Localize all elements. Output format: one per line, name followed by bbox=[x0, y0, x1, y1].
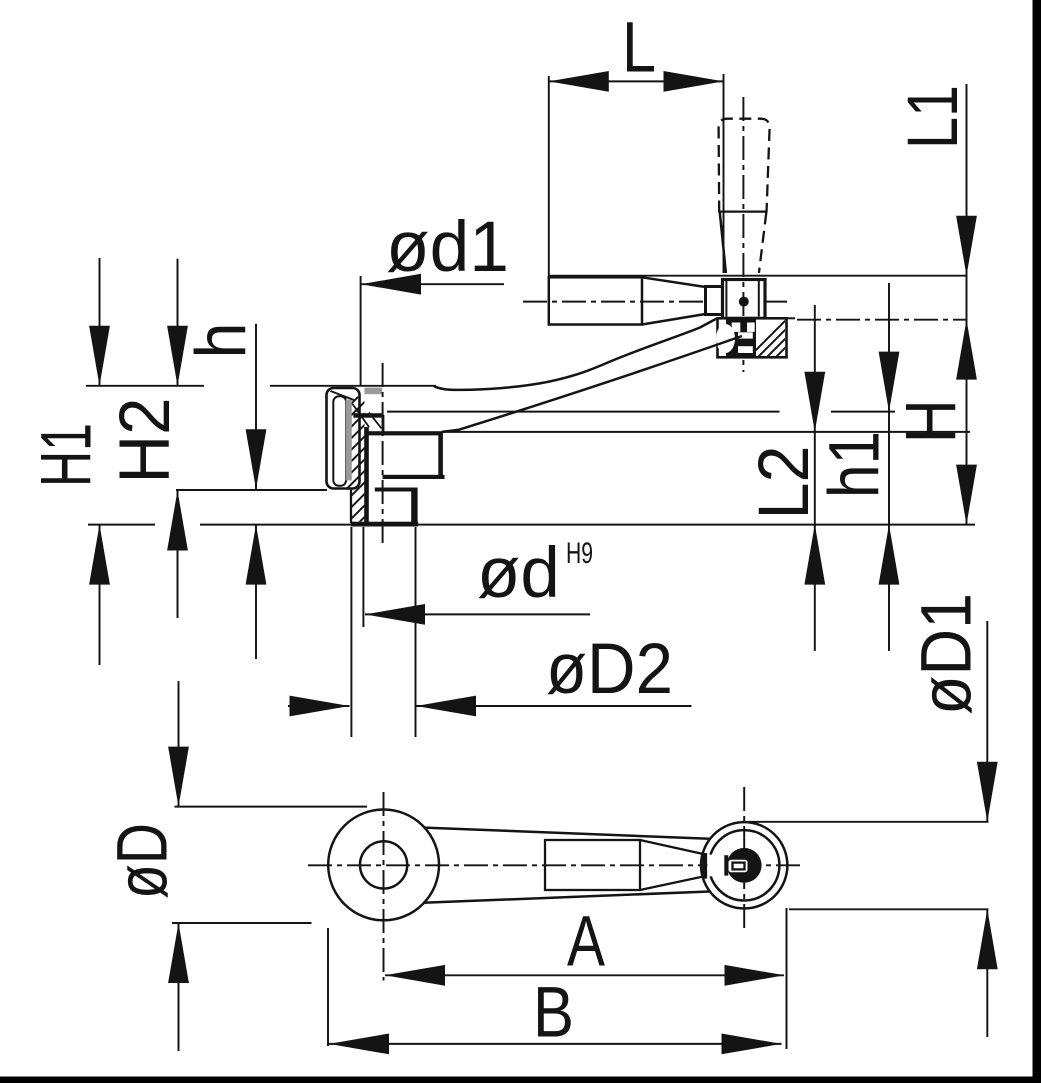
knob vertical centerline bbox=[743, 787, 745, 928]
arm upper sweep line bbox=[434, 319, 717, 390]
knob circles bbox=[701, 822, 787, 908]
svg-text:H: H bbox=[892, 399, 971, 443]
hub step shelf bbox=[383, 475, 445, 479]
hub cap (flange) bbox=[327, 388, 360, 489]
svg-text:H9: H9 bbox=[566, 537, 593, 570]
label H bbox=[892, 399, 971, 443]
grip centerline bbox=[742, 97, 744, 372]
hub chamfer lines bbox=[331, 391, 382, 429]
dimension H1 bbox=[89, 258, 110, 665]
hub lower step shelf bbox=[375, 488, 418, 492]
dimension L bbox=[549, 9, 724, 278]
cap bottom reference line bbox=[176, 489, 327, 491]
grip boss block bbox=[723, 280, 766, 319]
svg-text:L2: L2 bbox=[745, 446, 824, 520]
svg-text:øD: øD bbox=[103, 823, 182, 899]
dimension oD bbox=[168, 681, 367, 1051]
dimension L2 bbox=[804, 305, 825, 651]
dimension oD1 bbox=[745, 621, 998, 1037]
dash-dot reference line right bbox=[797, 319, 967, 321]
dimension h bbox=[246, 324, 267, 659]
arm centerline bbox=[523, 301, 787, 303]
reference line hub shoulder extended bbox=[442, 431, 971, 433]
hub top face connector bbox=[382, 415, 385, 433]
dimension od H9 bbox=[363, 527, 593, 627]
extension line B left bbox=[327, 928, 329, 1046]
hub bore left wall bbox=[364, 427, 369, 523]
label L1 bbox=[894, 85, 973, 149]
page border bottom bbox=[0, 1077, 1041, 1083]
extension line A B right bbox=[786, 908, 788, 1049]
hub top reference line bbox=[86, 385, 436, 387]
svg-text:B: B bbox=[533, 974, 574, 1053]
hub bore circle bbox=[360, 841, 407, 888]
svg-text:h1: h1 bbox=[816, 431, 895, 498]
hub top face bbox=[353, 413, 381, 418]
arm grip-end bar (side view) bbox=[549, 277, 706, 324]
grip socket plan bbox=[545, 840, 702, 890]
dimension L1 and H line bbox=[956, 84, 977, 525]
hub bottom bbox=[351, 522, 418, 527]
svg-text:A: A bbox=[567, 903, 606, 982]
svg-text:L: L bbox=[622, 9, 656, 88]
dimension A bbox=[385, 903, 785, 986]
arm outline plan bbox=[423, 828, 710, 903]
dimension od1 bbox=[361, 208, 509, 386]
dimension B bbox=[329, 974, 782, 1055]
plan horizontal centerline bbox=[308, 864, 803, 866]
hub step wall upper bbox=[438, 432, 443, 477]
hub vertical centerline bbox=[383, 792, 385, 981]
dimension oD2 bbox=[288, 527, 692, 737]
svg-text:L1: L1 bbox=[894, 85, 973, 149]
hub section hatch bbox=[328, 350, 382, 588]
arm lower sweep line bbox=[443, 336, 743, 432]
hub step wall lower bbox=[411, 491, 417, 526]
dimension H2 bbox=[167, 259, 188, 618]
svg-text:h: h bbox=[183, 323, 262, 359]
grip mount ear bbox=[706, 287, 723, 315]
svg-text:H1: H1 bbox=[28, 423, 107, 487]
hub centerline bbox=[382, 363, 384, 548]
page border right bbox=[1033, 0, 1041, 1083]
reference line h1 tick bbox=[387, 411, 895, 413]
hub grey insert top bbox=[365, 388, 383, 395]
hub counterbore shoulder bbox=[366, 431, 442, 435]
svg-text:ød1: ød1 bbox=[386, 208, 509, 287]
wire reference line top bbox=[549, 275, 967, 277]
svg-text:øD1: øD1 bbox=[908, 593, 987, 715]
svg-text:ød: ød bbox=[477, 534, 560, 613]
grip clamp block (section) bbox=[716, 314, 828, 362]
svg-text:H2: H2 bbox=[106, 398, 185, 484]
hub outer circle bbox=[328, 810, 439, 921]
hub cap slot bbox=[333, 396, 352, 486]
svg-text:øD2: øD2 bbox=[546, 630, 673, 709]
reference line hub bottom extended bbox=[88, 524, 155, 526]
revolving grip handle (dashed outline) bbox=[719, 119, 770, 273]
dimension h1 bbox=[879, 283, 900, 651]
